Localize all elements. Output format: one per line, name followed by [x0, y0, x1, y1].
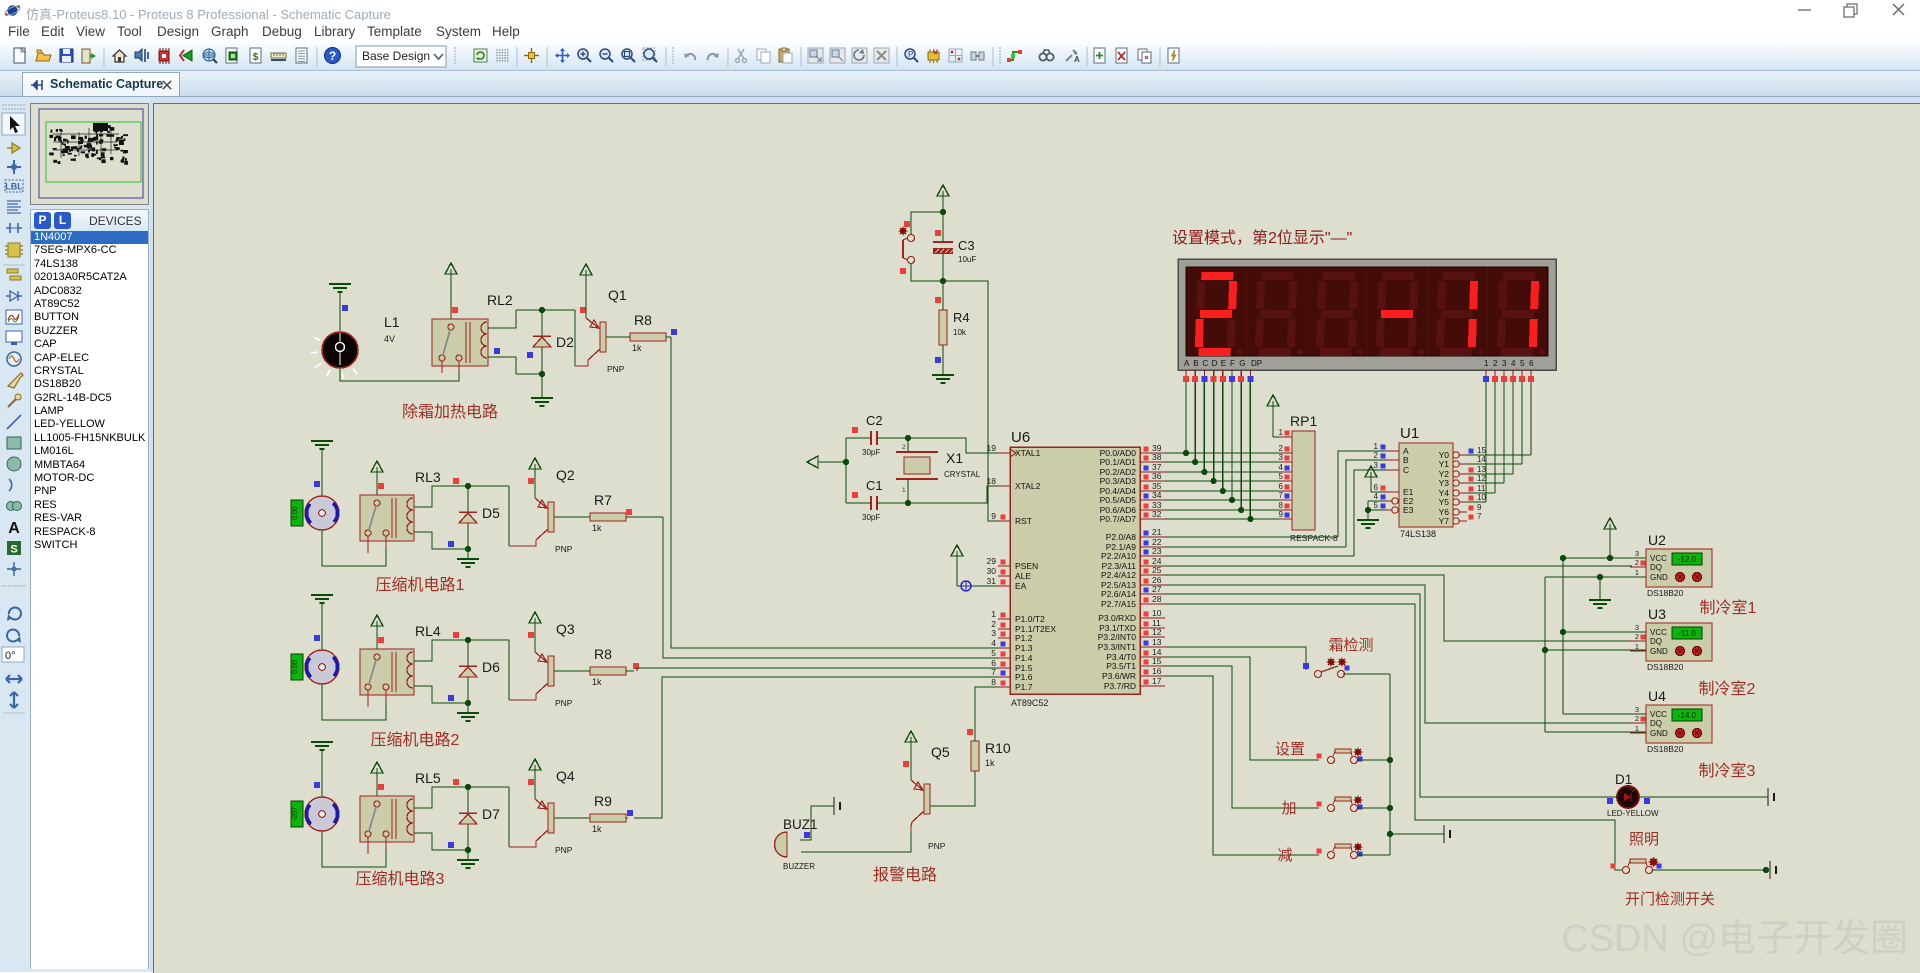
- label D2: [556, 334, 574, 350]
- svg-text:ALE: ALE: [1015, 571, 1031, 581]
- svg-text:霜检测: 霜检测: [1328, 637, 1373, 654]
- wire Q3 base to R8: [554, 670, 590, 672]
- temperature sensor U3 DS18B20: [1630, 623, 1712, 661]
- svg-text:11: 11: [1477, 484, 1486, 493]
- label R8 / 1k: [592, 646, 612, 687]
- svg-text:E3: E3: [1403, 505, 1414, 515]
- label Q3 / PNP: [555, 621, 575, 708]
- capacitor C1 (30pF): [846, 492, 908, 510]
- wire coil-bottom row: [494, 348, 542, 374]
- label LED-YELLOW: [1607, 809, 1659, 818]
- svg-text:XTAL2: XTAL2: [1015, 481, 1041, 491]
- relay RL2: [432, 319, 488, 373]
- wire P0.0 row to RP1: [1165, 452, 1279, 454]
- motor M (0.00 label): [305, 481, 339, 530]
- junction (diode top): [465, 483, 471, 489]
- wire motor bottom to relay: [322, 530, 386, 566]
- wire set button to common: [1357, 757, 1393, 763]
- svg-text:3: 3: [1374, 461, 1379, 470]
- svg-text:3: 3: [1635, 705, 1639, 714]
- transistor Q1: [575, 318, 606, 366]
- svg-text:B: B: [1193, 359, 1198, 368]
- power terminal (relay RL5 supply): [371, 762, 384, 796]
- ground (below D2): [531, 374, 553, 406]
- wire Q3 collector to node: [508, 640, 510, 700]
- label 设置模式: [1172, 229, 1352, 247]
- label D5: [482, 505, 500, 521]
- junction: [1183, 450, 1189, 456]
- label D1: [1615, 772, 1632, 787]
- power terminal (U1 E1): [1365, 466, 1386, 492]
- wire P3.5 to plus button: [1165, 666, 1319, 808]
- svg-text:12: 12: [1152, 627, 1162, 637]
- svg-text:3: 3: [1279, 453, 1284, 462]
- wire XTAL2 net: [908, 486, 998, 503]
- svg-text:2: 2: [1374, 451, 1379, 460]
- svg-text:Q4: Q4: [556, 768, 575, 784]
- wire lamp bottom to relay RL2: [340, 368, 459, 381]
- wire coil-top node row: [516, 307, 586, 313]
- capacitor C3 (10uF): [933, 212, 953, 281]
- svg-text:13: 13: [1152, 637, 1162, 647]
- svg-text:G: G: [1239, 359, 1245, 368]
- svg-text:PNP: PNP: [928, 841, 946, 851]
- svg-text:D: D: [1212, 359, 1218, 368]
- wire display segment column C: [1203, 382, 1205, 472]
- wire buzzer top to battery: [800, 806, 834, 840]
- svg-text:9: 9: [991, 511, 996, 521]
- power terminal (relay RL4 supply): [371, 615, 384, 649]
- svg-text:PNP: PNP: [555, 544, 573, 554]
- display 7SEG-MPX6-CC: [1178, 259, 1556, 370]
- label RL2: [487, 292, 513, 308]
- switch 霜检测 (frost detect): [1315, 658, 1350, 678]
- svg-text:P3.0/RXD: P3.0/RXD: [1098, 613, 1136, 623]
- diode D6: [459, 640, 477, 703]
- svg-text:3: 3: [1635, 623, 1639, 632]
- wire VCC to U3: [1563, 631, 1646, 633]
- svg-text:RL5: RL5: [415, 770, 441, 786]
- resistor R8: [590, 667, 626, 675]
- svg-text:GND: GND: [1650, 647, 1668, 656]
- label C2 / 30pF: [862, 413, 883, 457]
- junction (diode bottom): [465, 700, 471, 706]
- wire VCC chain vertical: [1560, 555, 1566, 714]
- svg-text:-14.0: -14.0: [1678, 711, 1697, 720]
- wire display segment column B: [1194, 382, 1196, 462]
- svg-text:16: 16: [1152, 666, 1162, 676]
- svg-text:Q2: Q2: [556, 467, 575, 483]
- wire P0.3 row to RP1: [1165, 480, 1279, 482]
- svg-text:RL3: RL3: [415, 469, 441, 485]
- junction: [1229, 497, 1235, 503]
- svg-text:-11.0: -11.0: [1678, 629, 1696, 638]
- svg-text:CSDN @电子开发圈: CSDN @电子开发圈: [1561, 918, 1908, 960]
- svg-text:制冷室2: 制冷室2: [1699, 680, 1756, 698]
- wire motor bottom to relay: [322, 684, 386, 720]
- label 制冷室3: [1699, 762, 1756, 780]
- junction: [1192, 459, 1198, 465]
- label DS18B20: [1647, 744, 1684, 754]
- svg-text:PNP: PNP: [555, 698, 573, 708]
- wire XTAL1 net: [908, 438, 998, 453]
- power terminal (Q1 emitter): [580, 264, 592, 318]
- svg-text:21: 21: [1152, 527, 1162, 537]
- svg-text:压缩机电路1: 压缩机电路1: [376, 576, 465, 594]
- label Q5 / PNP: [928, 744, 950, 851]
- svg-text:1: 1: [1374, 442, 1379, 451]
- junction: [1220, 488, 1226, 494]
- svg-text:10uF: 10uF: [958, 255, 976, 264]
- svg-text:GND: GND: [1650, 729, 1668, 738]
- wire P2.0 to U1-A: [1165, 451, 1386, 537]
- diode D2: [533, 310, 551, 374]
- power terminal (relay RL3 supply): [371, 461, 384, 495]
- wire frost switch to common: [1343, 674, 1390, 855]
- junction: [1211, 478, 1217, 484]
- svg-text:P1.0/T2: P1.0/T2: [1015, 614, 1045, 624]
- svg-text:74LS138: 74LS138: [1400, 529, 1436, 539]
- power terminal (Q5 emitter): [903, 731, 917, 780]
- svg-text:27: 27: [1152, 584, 1162, 594]
- power terminal (Q4 emitter): [528, 759, 541, 799]
- wire VCC to U2: [1563, 557, 1646, 559]
- wire VCC to U4: [1563, 713, 1646, 715]
- svg-text:P2.7/A15: P2.7/A15: [1101, 599, 1136, 609]
- wire display segment column DP: [1249, 382, 1251, 519]
- wire display segment column E: [1222, 382, 1224, 491]
- svg-text:RST: RST: [1015, 516, 1032, 526]
- svg-text:P: P: [908, 50, 913, 59]
- svg-text:X1: X1: [946, 450, 963, 466]
- wire to reset button: [911, 212, 943, 234]
- svg-text:设置: 设置: [1275, 741, 1305, 758]
- svg-text:DS18B20: DS18B20: [1647, 662, 1684, 672]
- svg-text:6: 6: [1374, 483, 1379, 492]
- wire Q2 base to R7: [554, 516, 590, 518]
- label D7: [482, 806, 500, 822]
- label D6: [482, 659, 500, 675]
- IC U1 74LS138: [1374, 442, 1487, 527]
- svg-text:BUZZER: BUZZER: [783, 862, 815, 871]
- label 压缩机电路1: [376, 576, 465, 594]
- capacitor C2 (30pF): [846, 427, 908, 445]
- svg-text:报警电路: 报警电路: [873, 866, 937, 884]
- svg-text:38: 38: [1152, 452, 1162, 462]
- svg-text:P2.2/A10: P2.2/A10: [1101, 551, 1136, 561]
- IC U6 AT89C52: [987, 443, 1165, 694]
- svg-text:34: 34: [1152, 490, 1162, 500]
- wire U1 Y4 to display digit: [1467, 382, 1495, 493]
- motor M (-207 label): [305, 782, 339, 831]
- watermark CSDN: [1561, 918, 1908, 960]
- svg-text:29: 29: [987, 556, 997, 566]
- wire motor bottom to relay: [322, 831, 386, 867]
- svg-text:Y5: Y5: [1439, 497, 1450, 507]
- wire U1 Y1 to display digit: [1467, 382, 1522, 464]
- resistor R4 (10k): [939, 310, 947, 345]
- svg-text:D5: D5: [482, 505, 500, 521]
- svg-text:1k: 1k: [632, 343, 642, 353]
- resistor pack RP1: [1279, 428, 1315, 530]
- svg-text:A: A: [8, 520, 20, 537]
- ground symbol (above lamp L1): [329, 284, 351, 332]
- svg-text:4: 4: [1511, 359, 1516, 368]
- junction (crystal top): [905, 435, 911, 441]
- label X1 / CRYSTAL: [944, 450, 981, 479]
- label 开门检测开关: [1625, 891, 1715, 908]
- svg-text:2: 2: [902, 444, 906, 451]
- svg-text:9: 9: [1279, 510, 1284, 519]
- junction (diode bottom): [465, 546, 471, 552]
- svg-text:2: 2: [1635, 714, 1639, 723]
- svg-text:12: 12: [1477, 474, 1486, 483]
- svg-text:31: 31: [987, 576, 997, 586]
- svg-text:VCC: VCC: [1650, 554, 1667, 563]
- svg-text:Y7: Y7: [1439, 516, 1450, 526]
- transistor Q2: [509, 498, 554, 546]
- label DS18B20: [1647, 662, 1684, 672]
- wire P0.2 row to RP1: [1165, 471, 1279, 473]
- diode D7: [459, 787, 477, 850]
- wire node to R4: [935, 281, 943, 310]
- label R9 / 1k: [592, 793, 612, 834]
- wire display segment column G: [1240, 382, 1242, 510]
- svg-text:L1: L1: [384, 314, 400, 330]
- svg-text:?: ?: [329, 49, 336, 63]
- svg-text:P3.7/RD: P3.7/RD: [1104, 681, 1136, 691]
- relay RL5: [360, 796, 414, 854]
- display segment pins: [1183, 370, 1253, 382]
- transistor Q3: [509, 652, 554, 700]
- svg-text:P1.3: P1.3: [1015, 643, 1033, 653]
- svg-text:DQ: DQ: [1650, 719, 1662, 728]
- svg-text:照明: 照明: [1629, 831, 1659, 848]
- button 设置 (set): [1317, 748, 1363, 764]
- power terminal (relay RL2 coil supply): [445, 263, 458, 319]
- svg-text:U1: U1: [1400, 425, 1419, 442]
- svg-text:P0.3/AD3: P0.3/AD3: [1100, 476, 1137, 486]
- label R8 / 1k: [632, 312, 652, 353]
- ground (below diode): [457, 703, 479, 721]
- power terminal (EA): [951, 545, 963, 586]
- 7seg digit 5: [1436, 272, 1484, 356]
- wire display segment column F: [1231, 382, 1233, 500]
- transistor Q4: [509, 799, 554, 847]
- label 压缩机电路2: [371, 731, 460, 749]
- ground (reset): [932, 375, 954, 383]
- wire display segment column D: [1213, 382, 1215, 481]
- svg-text:Q3: Q3: [556, 621, 575, 637]
- svg-text:13: 13: [1477, 465, 1486, 474]
- junction (battery tap): [1387, 831, 1393, 837]
- svg-text:Q1: Q1: [608, 287, 627, 303]
- svg-text:$: $: [253, 52, 259, 63]
- svg-text:Y3: Y3: [1439, 478, 1450, 488]
- svg-text:DQ: DQ: [1650, 563, 1662, 572]
- LED D1: [1607, 786, 1650, 808]
- transistor Q5: [911, 780, 930, 832]
- wire P2.5 net (U4 DQ): [1165, 585, 1632, 723]
- svg-text:PSEN: PSEN: [1015, 561, 1038, 571]
- wire GND to U3: [1545, 649, 1646, 651]
- svg-text:加: 加: [1281, 800, 1296, 817]
- svg-text:4: 4: [1279, 463, 1284, 472]
- origin marker (no-connect): [957, 581, 998, 591]
- svg-text:-12.0: -12.0: [1678, 555, 1697, 564]
- diode D5: [459, 486, 477, 549]
- svg-text:VCC: VCC: [1650, 628, 1667, 637]
- junction (D2 bottom): [539, 371, 545, 377]
- svg-text:压缩机电路2: 压缩机电路2: [371, 731, 460, 749]
- svg-text:S: S: [10, 544, 17, 556]
- svg-text:2: 2: [1493, 359, 1498, 368]
- label 霜检测: [1328, 637, 1373, 654]
- svg-text:Q5: Q5: [931, 744, 950, 760]
- wire door switch to battery: [1652, 867, 1769, 873]
- wire coil top node: [414, 787, 509, 808]
- svg-text:14: 14: [1477, 455, 1486, 464]
- label 加: [1281, 800, 1296, 817]
- svg-text:P2.6/A14: P2.6/A14: [1101, 589, 1136, 599]
- svg-text:7: 7: [1279, 491, 1284, 500]
- svg-text:5: 5: [991, 648, 996, 658]
- ground arrow (crystal): [807, 456, 846, 468]
- label C1 / 30pF: [862, 478, 883, 522]
- wire P2.3 net (U2 DQ): [1165, 565, 1632, 567]
- label BUZ1: [783, 817, 818, 832]
- svg-text:3: 3: [1635, 549, 1639, 558]
- svg-text:1: 1: [1279, 428, 1284, 437]
- 7seg digit 2: [1255, 272, 1303, 356]
- wire P3.6 to minus button: [1165, 676, 1319, 855]
- svg-text:Base Design: Base Design: [362, 49, 430, 63]
- svg-text:6: 6: [1279, 482, 1284, 491]
- svg-text:P3.6/WR: P3.6/WR: [1102, 671, 1136, 681]
- svg-text:10: 10: [1152, 608, 1162, 618]
- wire coil top node: [414, 640, 509, 661]
- motor value box: [291, 654, 303, 680]
- svg-text:10k: 10k: [953, 328, 967, 337]
- svg-text:开门检测开关: 开门检测开关: [1625, 891, 1715, 908]
- resistor R9: [590, 814, 626, 822]
- label Q4 / PNP: [555, 768, 575, 855]
- wire coil bottom node: [414, 779, 468, 850]
- svg-text:4: 4: [991, 638, 996, 648]
- svg-text:28: 28: [1152, 594, 1162, 604]
- svg-text:5: 5: [1279, 472, 1284, 481]
- wire button bottom to node: [911, 264, 943, 281]
- wire coil bottom node: [414, 632, 468, 703]
- button 减 (minus): [1317, 843, 1363, 859]
- label U3: [1648, 606, 1666, 622]
- svg-text:P1.6: P1.6: [1015, 672, 1033, 682]
- svg-text:C2: C2: [866, 413, 883, 428]
- label U4: [1648, 688, 1666, 704]
- svg-text:PNP: PNP: [555, 845, 573, 855]
- wire U1 Y5 to display digit: [1467, 382, 1486, 502]
- wire P2.6 net (LED D1): [1165, 594, 1608, 797]
- 7seg digit 4: [1376, 272, 1424, 356]
- svg-text:R9: R9: [594, 793, 612, 809]
- wire P0.4 row to RP1: [1165, 490, 1279, 492]
- svg-text:1: 1: [1635, 568, 1639, 577]
- junction (cap common): [843, 459, 849, 465]
- svg-text:P1.2: P1.2: [1015, 633, 1033, 643]
- battery (door switch): [1770, 861, 1776, 879]
- svg-text:3: 3: [991, 628, 996, 638]
- resistor R8 (defrost): [630, 333, 666, 341]
- svg-text:6: 6: [1529, 359, 1534, 368]
- svg-text:19: 19: [987, 443, 997, 453]
- label 设置: [1275, 741, 1305, 758]
- wire D1 right to battery: [1639, 796, 1768, 798]
- label RL4: [415, 623, 441, 639]
- wire D1 left: [1608, 796, 1617, 798]
- label Q2 / PNP: [555, 467, 575, 554]
- ground symbol (above motor): [311, 441, 333, 496]
- svg-text:23: 23: [1152, 546, 1162, 556]
- svg-text:RESPACK-8: RESPACK-8: [1290, 533, 1338, 543]
- svg-text:P2.0/A8: P2.0/A8: [1106, 532, 1137, 542]
- display pin labels 123456: [1484, 359, 1534, 368]
- wire E2/E3 to ground: [1357, 501, 1386, 528]
- svg-text:30pF: 30pF: [862, 513, 880, 522]
- 7seg digit 3: [1316, 272, 1364, 356]
- svg-text:除霜加热电路: 除霜加热电路: [402, 403, 498, 421]
- svg-text:P3.5/T1: P3.5/T1: [1106, 661, 1136, 671]
- svg-text:A: A: [1074, 55, 1080, 64]
- wire Q5 base to R10: [930, 771, 975, 806]
- svg-text:PNP: PNP: [607, 364, 625, 374]
- wire relay coil top to node: [488, 310, 516, 328]
- label L1 / 4V: [384, 314, 400, 344]
- label R7 / 1k: [592, 492, 612, 533]
- svg-text:2: 2: [1635, 632, 1639, 641]
- junction (diode top): [465, 784, 471, 790]
- resistor R7: [590, 513, 626, 521]
- wire Q4 collector to node: [508, 787, 510, 847]
- junction (crystal bottom): [905, 500, 911, 506]
- svg-text:18: 18: [987, 476, 997, 486]
- svg-text:0.00: 0.00: [292, 660, 299, 674]
- svg-text:U3: U3: [1648, 606, 1666, 622]
- wire P0.1 row to RP1: [1165, 461, 1279, 463]
- button 加 (plus): [1317, 796, 1363, 812]
- svg-text:XTAL1: XTAL1: [1015, 448, 1041, 458]
- label RESPACK-8: [1290, 533, 1338, 543]
- svg-text:R7: R7: [594, 492, 612, 508]
- ground (below diode): [457, 850, 479, 868]
- junction (RST tap): [940, 278, 946, 284]
- svg-text:RL4: RL4: [415, 623, 441, 639]
- label U6: [1011, 429, 1030, 446]
- svg-text:D6: D6: [482, 659, 500, 675]
- label AT89C52: [1011, 698, 1048, 708]
- svg-text:17: 17: [1152, 676, 1162, 686]
- junction (diode bottom): [465, 847, 471, 853]
- wire Q2 collector to node: [508, 486, 510, 546]
- svg-text:R8: R8: [634, 312, 652, 328]
- label R10 / 1k: [985, 740, 1011, 768]
- svg-text:36: 36: [1152, 471, 1162, 481]
- svg-text:C: C: [1202, 359, 1208, 368]
- junction: [1247, 516, 1253, 522]
- svg-text:D1: D1: [1615, 772, 1632, 787]
- wire P2.4 net (U3 DQ): [1165, 575, 1632, 641]
- label C3 / 10uF: [958, 238, 976, 264]
- svg-text:减: 减: [1277, 847, 1292, 864]
